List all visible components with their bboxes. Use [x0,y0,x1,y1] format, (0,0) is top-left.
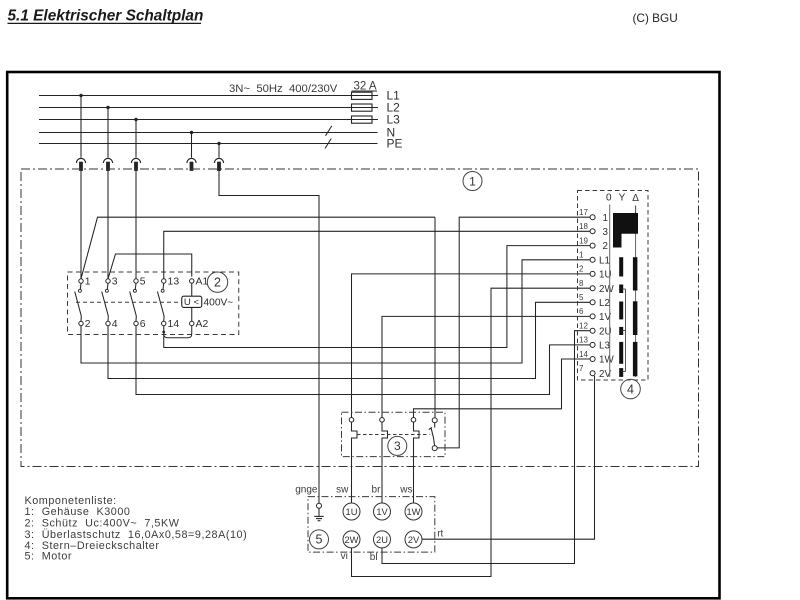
node tap junction 2 [106,106,109,109]
star-delta switch dashed box [578,191,649,381]
switch delta-column bar 1 [633,257,638,290]
switch terminal L3 circle [590,342,595,347]
svg-text:400V~: 400V~ [204,298,234,309]
overload linkage dashed [357,434,430,436]
title underline [8,22,202,24]
motor terminal 1U [343,503,360,520]
switch delta-column bar 3 [633,342,638,376]
wire overload 1V to switch 1V [382,316,590,417]
N disconnect slash [326,126,332,136]
switch Y-column bar 2 [619,285,623,294]
svg-text:(C) BGU: (C) BGU [633,11,678,25]
wire tap 5 drop [218,144,220,158]
switch star-point link line [625,289,627,372]
svg-text:2: 2 [579,265,584,274]
ground bar 2 [316,518,322,520]
switch delta-column bar 2 [633,301,638,335]
component circle 5 [310,530,329,549]
overload aux bottom terminal [432,446,437,451]
contactor terminal 1 circle [79,279,83,283]
wire overload 1W to switch 1W [414,359,591,417]
plug connector 2 arc [103,158,112,163]
overload aux stub [434,423,436,428]
switch terminal 3 circle [590,229,595,234]
switch terminal 1 circle [590,215,595,220]
svg-text:gnge: gnge [295,484,318,495]
svg-text:3: 3 [112,277,118,288]
switch terminal L1 circle [590,257,595,262]
contactor coil wire A1-A2 [191,283,193,321]
svg-text:2W: 2W [599,284,614,295]
svg-text:5: Motor: 5: Motor [25,551,73,563]
switch position 0 column line [609,205,611,378]
plug connector 5 pin [218,162,221,170]
switch star-point tick 2W [622,288,625,290]
wire L2 feed to contact 3 [107,171,109,279]
plug connector 1 pin [80,162,83,170]
svg-text:12: 12 [579,322,588,331]
wire contact6 to switch L3 [136,326,590,395]
switch terminal 2W circle [590,286,595,291]
motor terminal 2U [374,531,391,548]
switch Y-column bar 1 [619,257,623,276]
wire PE to motor ground (gnge) [219,171,319,504]
svg-text:3: 3 [394,439,401,453]
wire contactor 13 to switch pin18 [164,231,590,278]
wire contact4 to switch L2 [108,302,590,378]
svg-text:sw: sw [336,484,349,495]
wire motor 2W (vi) to switch 2W [352,288,591,576]
contactor pole 13/14 stub+hook [162,283,165,289]
svg-text:L3: L3 [387,113,401,127]
plug connector 3 pin [135,162,138,170]
overload aux NC bar [429,427,432,429]
switch Y-column bar 3 [619,302,623,320]
overload aux blade [431,428,434,445]
svg-text:6: 6 [140,319,146,330]
contactor terminal 6 circle [134,321,138,325]
contactor K1 dashed box [68,272,239,335]
svg-text:4: 4 [627,383,634,397]
wire tap 1 drop [80,96,82,158]
wire overload aux out to switch pin17 [437,217,590,448]
svg-text:1: 1 [469,174,476,188]
motor terminal 2W [343,531,360,548]
switch terminal 2U circle [590,328,595,333]
svg-text:rt: rt [437,528,443,539]
svg-text:0: 0 [606,193,612,204]
plug connector 1 arc [76,158,85,163]
wire tap 4 drop [191,133,193,158]
svg-text:14: 14 [579,350,588,359]
node tap junction 1 [79,94,82,97]
ground stem [318,508,320,516]
overload heater 1W element [414,422,420,503]
node junction 14/A2 [162,331,165,334]
svg-text:Δ: Δ [632,193,639,204]
wire motor 2U (bl) to switch 2U [382,331,590,564]
contactor terminal 2 circle [79,321,83,325]
contactor terminal 14 circle [162,321,166,325]
svg-text:L1: L1 [599,255,610,266]
fuse F2 [352,104,373,111]
wire rail PE [39,143,378,145]
wire tap 2 drop [107,108,109,158]
svg-text:3: 3 [603,227,609,238]
wire contact2 to switch L1 [81,260,590,363]
component circle 1 [463,172,482,191]
drawing border frame [7,72,719,598]
svg-text:2W: 2W [345,535,359,545]
fuse rating underline [352,90,378,92]
contactor pole 5/6 lower stub [135,316,137,321]
contactor pole 13/14 lower stub [163,316,165,321]
wire rail L1 [39,95,378,97]
svg-text:1V: 1V [376,507,388,517]
overload relay dash-dot box [342,412,446,456]
undervoltage coil box U< [182,296,202,307]
svg-text:17: 17 [579,208,588,217]
wire contact3 branch to coil A1 [108,254,192,279]
plug connector 2 pin [107,162,110,170]
motor terminal 1V [374,503,391,520]
svg-text:PE: PE [387,137,403,151]
switch cam block (rows 1-3) [613,213,638,248]
wire 14 to switch pin19 [164,246,590,348]
contactor terminal 3 circle [106,279,110,283]
fuse F3 [352,116,373,123]
overload heater 1V element [382,422,388,503]
svg-text:7: 7 [579,364,584,373]
svg-text:2U: 2U [376,535,388,545]
contactor terminal 13 circle [162,279,166,283]
svg-text:14: 14 [168,319,180,330]
svg-text:1U: 1U [346,507,358,517]
wire A2 link to 14 [164,326,192,338]
svg-text:1: 1 [85,277,91,288]
svg-text:2: 2 [214,276,221,290]
svg-text:18: 18 [579,222,588,231]
component circle 2 [207,272,227,292]
wire L1 feed to contact 1 [80,171,82,279]
switch Y-column bar 4 [619,327,623,335]
contactor pole 5/6 blade [130,292,137,317]
svg-text:4: 4 [112,319,118,330]
wire rail N [39,132,378,134]
svg-text:U <: U < [184,297,200,308]
node tap junction 3 [134,118,137,121]
plug connector 5 arc [214,158,223,163]
overload aux NC top terminal [432,418,437,423]
wire overload 1U to switch 1U [352,274,591,418]
component circle 3 [388,436,407,455]
switch star-point tick 2V [622,371,625,373]
svg-text:5: 5 [579,293,584,302]
enclosure U1 dash-dot box [21,169,699,467]
switch terminal L2 circle [590,300,595,305]
contactor pole 5/6 stub+hook [134,283,137,289]
contactor pole 1/2 lower stub [80,316,82,321]
contactor pole 13/14 blade [157,292,164,317]
svg-text:13: 13 [579,336,588,345]
plug connector 4 arc [187,158,196,163]
svg-text:5: 5 [316,533,323,547]
svg-text:vi: vi [341,551,348,562]
contactor linkage dashed [76,301,181,303]
svg-text:L2: L2 [599,298,610,309]
switch terminal 2 circle [590,243,595,248]
svg-text:1: Gehäuse K3000: 1: Gehäuse K3000 [25,506,131,518]
svg-text:19: 19 [579,236,588,245]
contactor terminal A1 circle [190,279,194,283]
wire L3 feed to contact 5 [135,171,137,279]
contactor terminal 4 circle [106,321,110,325]
contactor terminal A2 circle [190,321,194,325]
switch terminal 1W circle [590,357,595,362]
contactor pole 3/4 lower stub [107,316,109,321]
fuse F1 [352,92,373,99]
svg-text:6: 6 [579,307,584,316]
svg-text:1: 1 [603,213,608,224]
motor terminal 2V [405,531,422,548]
wire rail L2 [39,107,378,109]
svg-text:L3: L3 [599,341,610,352]
wire drop to overload aux top [434,217,436,417]
svg-text:2V: 2V [408,535,420,545]
plug connector 4 pin [190,162,193,170]
overload heater 1V terminal [380,418,385,423]
switch delta column line [635,234,637,378]
switch terminal 1V circle [590,314,595,319]
contactor pole 1/2 stub+hook [79,283,82,289]
switch star-point tick 2U [622,330,625,332]
svg-text:2: 2 [603,241,608,252]
wire contact1 branch to aux (node A) [81,217,435,279]
node tap junction 5 [217,142,220,145]
contactor terminal 5 circle [134,279,138,283]
wire rail L3 [39,119,378,121]
switch terminal 1U circle [590,271,595,276]
svg-text:8: 8 [579,279,584,288]
switch terminal 2V circle [590,371,595,376]
svg-text:bl: bl [370,552,378,563]
wire tap 3 drop [135,120,137,158]
contactor pole 3/4 blade [102,292,109,317]
motor terminal 1W [405,503,422,520]
svg-text:A1: A1 [196,277,209,288]
svg-text:3N~ 50Hz 400/230V: 3N~ 50Hz 400/230V [229,83,338,95]
motor dash-dot box [308,497,435,552]
switch delta stem [635,206,637,214]
svg-text:2: Schütz Uc:400V~ 7,5KW: 2: Schütz Uc:400V~ 7,5KW [25,517,180,529]
svg-text:1W: 1W [599,355,614,366]
svg-text:ws: ws [399,484,412,495]
ground bar 3 [318,520,321,522]
ground bar 1 [314,515,323,517]
svg-text:5.1 Elektrischer Schaltplan: 5.1 Elektrischer Schaltplan [8,8,204,25]
svg-text:A2: A2 [196,319,209,330]
svg-text:br: br [372,484,382,495]
contactor pole 1/2 blade [75,292,82,317]
contactor pole 3/4 stub+hook [106,283,109,289]
node tap junction 4 [190,131,193,134]
ground terminal circle [317,503,322,508]
overload heater 1W terminal [411,418,416,423]
svg-text:1: 1 [579,251,584,260]
switch Y-column bar 6 [619,368,623,377]
component circle 4 [621,379,641,399]
overload heater 1U terminal [349,418,354,423]
svg-text:5: 5 [140,277,146,288]
svg-text:1W: 1W [407,507,421,517]
PE disconnect slash [325,139,331,149]
plug connector 3 arc [131,158,140,163]
switch Y-column bar 5 [619,342,623,364]
svg-text:Y: Y [619,193,626,204]
svg-text:2: 2 [85,319,91,330]
svg-text:13: 13 [168,277,180,288]
wire motor 2V (rt) to switch 2V [422,376,595,539]
overload heater 1U element [352,422,358,503]
